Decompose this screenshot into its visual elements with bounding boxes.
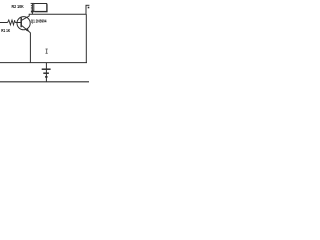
resistor R1 [8,20,16,25]
box load [34,4,47,12]
label I [46,49,48,53]
svg-text:R2 10K: R2 10K [12,4,25,9]
wire collector rail [29,13,87,15]
ground [45,63,47,82]
transistor Q1 [17,17,30,30]
wire input base [0,22,8,24]
wire right vertical [85,14,87,62]
svg-text:Q1 2N3904: Q1 2N3904 [31,19,47,24]
svg-text:R1 1K: R1 1K [1,28,11,33]
wire resistor to base [15,22,21,24]
node Vplus terminal [85,5,87,14]
wire bottom rail [0,81,89,83]
wire emitter vertical [29,33,31,63]
wire middle rail [0,62,87,64]
resistor R2 [31,2,34,4]
